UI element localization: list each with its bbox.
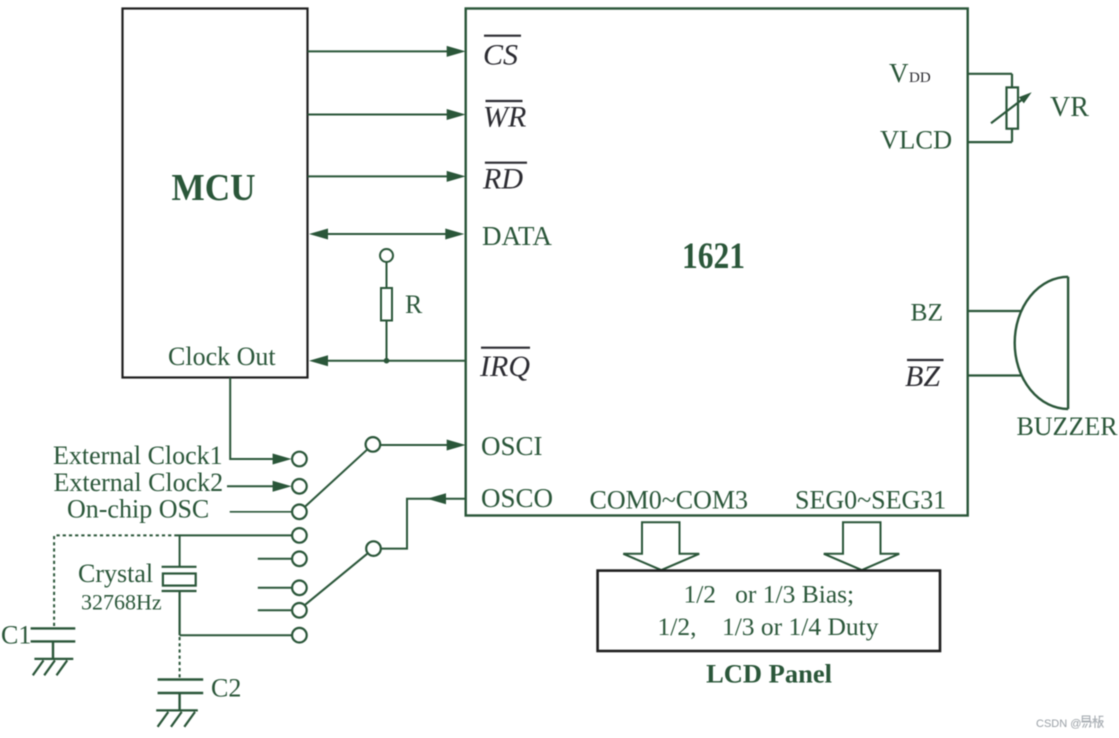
svg-text:R: R xyxy=(405,290,423,319)
svg-text:BZ: BZ xyxy=(911,298,944,327)
pin label IRQ xyxy=(479,348,530,383)
stub wire node 6 xyxy=(258,587,292,589)
node 5 xyxy=(292,552,307,567)
node 1 xyxy=(292,452,307,467)
crystal X1 32768Hz xyxy=(162,567,197,635)
svg-text:32768Hz: 32768Hz xyxy=(81,589,162,614)
wire on-chip OSC to node 3 xyxy=(230,511,292,513)
wire node 4 to crystal top xyxy=(178,534,293,536)
svg-text:Crystal: Crystal xyxy=(78,559,153,588)
buzzer xyxy=(1015,277,1068,409)
wire OSCO to lower pole xyxy=(381,493,466,548)
svg-text:1621: 1621 xyxy=(682,236,745,277)
variable resistor VR xyxy=(991,74,1025,142)
wire external clock2 to node 2 xyxy=(227,481,292,492)
svg-text:On-chip OSC: On-chip OSC xyxy=(67,495,209,524)
node 7 xyxy=(292,603,307,618)
svg-text:LCD Panel: LCD Panel xyxy=(706,659,832,689)
junction of R on IRQ wire xyxy=(384,358,390,364)
resistor R xyxy=(381,262,392,361)
svg-text:C2: C2 xyxy=(211,674,241,703)
switch upper pole node xyxy=(366,437,381,452)
capacitor C2 xyxy=(158,680,204,711)
wire CS (MCU to 1621) xyxy=(308,46,466,57)
svg-text:V: V xyxy=(889,58,909,88)
svg-text:1/2, 1/3 or 1/4 Duty: 1/2, 1/3 or 1/4 Duty xyxy=(658,612,879,641)
svg-text:DD: DD xyxy=(909,70,931,86)
svg-text:VR: VR xyxy=(1050,92,1089,123)
wire crystal bottom to node 8 xyxy=(180,634,293,636)
wire DATA (bidirectional) xyxy=(309,229,464,240)
svg-text:CS: CS xyxy=(483,39,518,72)
chip 1621 box U1 xyxy=(466,9,968,516)
ground for C2 xyxy=(156,710,198,726)
node 6 xyxy=(292,581,307,596)
wire WR xyxy=(308,109,466,120)
svg-text:MCU: MCU xyxy=(172,167,256,209)
LCD panel box xyxy=(598,571,940,651)
svg-text:WR: WR xyxy=(483,101,526,134)
wire IRQ (1621 to MCU) xyxy=(309,355,466,366)
block arrow COM xyxy=(623,522,699,570)
svg-text:Clock Out: Clock Out xyxy=(168,342,276,371)
capacitor C1 xyxy=(31,628,76,659)
wire RD xyxy=(308,171,466,182)
svg-text:OSCI: OSCI xyxy=(481,431,543,461)
resistor R terminal circle xyxy=(380,249,393,262)
block arrow SEG xyxy=(824,522,899,570)
node 2 xyxy=(292,479,307,494)
svg-text:SEG0~SEG31: SEG0~SEG31 xyxy=(795,486,946,515)
pin label BZn xyxy=(905,360,944,393)
wire crystal top drop xyxy=(179,535,181,566)
svg-text:External Clock2: External Clock2 xyxy=(54,468,224,497)
MCU box xyxy=(123,9,308,378)
node 8 xyxy=(292,628,307,643)
svg-text:VLCD: VLCD xyxy=(880,125,952,155)
wire VLCD stub xyxy=(968,141,1012,143)
pin label VDD xyxy=(889,58,931,88)
svg-text:External Clock1: External Clock1 xyxy=(53,441,223,470)
node 4 xyxy=(292,528,307,543)
svg-text:1/2 or 1/3 Bias;: 1/2 or 1/3 Bias; xyxy=(683,579,854,608)
dashed wire to C2 xyxy=(179,637,181,679)
svg-text:RD: RD xyxy=(482,163,523,196)
stub wire node 5 xyxy=(258,558,292,560)
svg-text:OSCO: OSCO xyxy=(481,483,553,513)
stub wire node 7 xyxy=(258,609,291,611)
svg-text:DATA: DATA xyxy=(482,221,552,251)
svg-text:BUZZER: BUZZER xyxy=(1016,412,1118,441)
ground for C1 xyxy=(33,659,74,675)
pin label RD xyxy=(482,163,527,196)
wire VDD stub xyxy=(968,73,1012,75)
node 3 xyxy=(292,505,307,520)
svg-text:CSDN @: CSDN @ xyxy=(1036,718,1081,730)
wire BZn xyxy=(968,374,1022,376)
wire clock out to node 1 xyxy=(230,378,291,465)
svg-text:IRQ: IRQ xyxy=(479,350,530,383)
wire pole to OSCI xyxy=(380,440,466,451)
svg-text:COM0~COM3: COM0~COM3 xyxy=(590,486,749,515)
svg-text:BZ: BZ xyxy=(905,360,940,393)
pin label CS xyxy=(483,36,521,72)
switch upper arm (node 3 to pole) xyxy=(305,449,368,507)
dashed wire C1 top xyxy=(54,535,177,627)
wire BZ xyxy=(968,310,1022,312)
switch lower pole node xyxy=(366,541,381,556)
svg-text:C1: C1 xyxy=(1,621,31,650)
VR arrowhead xyxy=(1019,92,1032,103)
switch lower arm (node 7 to pole) xyxy=(304,553,368,606)
pin label WR xyxy=(483,101,526,134)
